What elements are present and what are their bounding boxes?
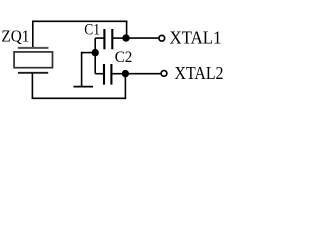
crystal ZQ1 top lead wire (32, 21, 34, 48)
svg-text:ZQ1: ZQ1 (1, 26, 29, 45)
crystal ZQ1 bottom lead wire (31, 73, 33, 99)
wire to XTAL2 terminal (125, 73, 160, 75)
node junction XTAL2 (dot) (122, 70, 129, 77)
crystal ZQ1 (14, 48, 52, 73)
svg-text:XTAL1: XTAL1 (170, 28, 222, 48)
node junction ground branch (dot) (92, 49, 99, 56)
svg-text:C1: C1 (84, 21, 100, 38)
capacitor C1 (95, 29, 126, 49)
capacitor C2 (95, 64, 125, 85)
wire ground tap horizontal (82, 52, 96, 54)
wire right-bottom vertical up to C2 row (124, 74, 126, 99)
terminal XTAL2 (open circle) (161, 71, 167, 77)
svg-text:C2: C2 (115, 49, 133, 66)
wire right vertical down to C1 row (126, 21, 128, 38)
wire ground vertical (81, 52, 83, 87)
wire to XTAL1 terminal (126, 37, 158, 39)
wire ground-branch vertical (C1 left to C2 left) (94, 38, 96, 74)
wire top (XTAL1 net: crystal top to right corner) (32, 20, 127, 22)
svg-text:XTAL2: XTAL2 (175, 63, 224, 83)
terminal XTAL1 (open circle) (159, 35, 165, 41)
node junction XTAL1 (dot) (122, 34, 129, 41)
ground (74, 86, 94, 88)
wire bottom (XTAL2 net) (32, 97, 127, 99)
